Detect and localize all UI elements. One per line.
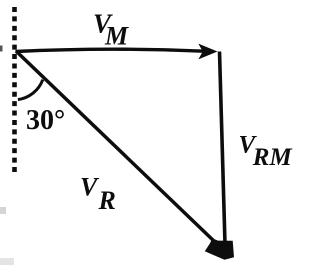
wire: V_RM shaft (220, 52, 226, 245)
svg-text:30°: 30° (26, 105, 65, 136)
svg-text:M: M (104, 21, 129, 50)
wire: V_M shaft (16, 49, 205, 51)
wire: V_R shaft (16, 51, 216, 243)
scan smudge left edge middle (0, 207, 6, 214)
dashed reference line (vertical) (12, 7, 17, 172)
angle arc (18, 80, 43, 100)
svg-text:R: R (98, 186, 116, 215)
scan speck left edge top (0, 46, 3, 52)
svg-text:RM: RM (252, 144, 293, 171)
svg-text:V: V (80, 173, 100, 202)
scan smudge bottom left (0, 258, 14, 265)
merged arrowheads of V_R and V_RM (205, 239, 234, 260)
arrowhead V_M (198, 44, 217, 60)
